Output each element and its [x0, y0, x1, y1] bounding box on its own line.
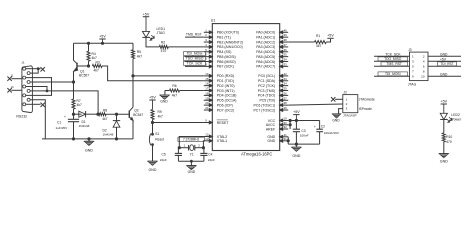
wire GND rail	[42, 138, 133, 140]
ground rail GND symbol	[84, 138, 94, 153]
svg-text:ATmega16-16PC: ATmega16-16PC	[241, 152, 272, 157]
capacitor C2 100uF	[314, 121, 340, 145]
svg-text:14: 14	[205, 72, 209, 76]
svg-text:PD6 (ICP): PD6 (ICP)	[217, 103, 233, 107]
ground S1 GND	[148, 161, 158, 172]
pin 29 PC7	[253, 106, 288, 112]
capacitor C5 22pF	[160, 148, 182, 163]
svg-text:GND: GND	[440, 52, 448, 56]
svg-text:PC0 (SCL): PC0 (SCL)	[258, 74, 275, 78]
svg-text:22: 22	[284, 72, 288, 76]
svg-text:PC3 (TMS): PC3 (TMS)	[258, 89, 276, 93]
no-connect X DB9 left stub A	[7, 73, 22, 81]
wire XTAL1 to crystal	[202, 141, 204, 148]
svg-text:34: 34	[284, 58, 288, 62]
transistor Q2 BC547	[106, 107, 143, 139]
svg-text:PD0 (RXD): PD0 (RXD)	[217, 74, 235, 78]
pin 37 PA3	[256, 43, 288, 49]
svg-text:AREF: AREF	[266, 127, 275, 131]
wire XTAL2 to crystal	[179, 137, 204, 148]
svg-text:U1: U1	[211, 19, 216, 23]
wire DB9 loopback inner	[26, 87, 48, 92]
svg-text:22pF: 22pF	[208, 158, 215, 162]
wire J2 pin1 NC	[331, 97, 343, 101]
svg-text:GND: GND	[332, 118, 340, 122]
svg-text:D1: D1	[82, 120, 86, 124]
wire DB9 pin6 up	[30, 68, 39, 73]
svg-text:GND: GND	[149, 168, 157, 172]
svg-text:4k7: 4k7	[94, 68, 99, 72]
pin 4 PB3	[204, 43, 243, 49]
svg-text:31: 31	[284, 137, 288, 141]
svg-text:GND: GND	[267, 139, 275, 143]
svg-text:GND: GND	[188, 170, 196, 174]
pin 31 GND	[267, 137, 288, 143]
connector J2 JTAG-ISP header	[343, 90, 358, 117]
pin 14 PD0	[204, 72, 235, 78]
node crystal value box	[178, 137, 204, 142]
svg-text:PA4 (ADC4): PA4 (ADC4)	[256, 50, 275, 54]
svg-text:21: 21	[205, 106, 209, 110]
wire DB9 pin9 to GND rail	[30, 100, 45, 139]
svg-text:10: 10	[11, 85, 14, 89]
svg-text:J2: J2	[343, 90, 347, 94]
svg-text:TDO_MISO: TDO_MISO	[384, 57, 402, 61]
svg-text:PA2 (ADC2): PA2 (ADC2)	[256, 40, 275, 44]
pin 13 XTAL1	[204, 137, 227, 143]
svg-text:PB4 (SS): PB4 (SS)	[217, 50, 232, 54]
svg-text:GND: GND	[160, 99, 168, 103]
wire J3 pin10 GND	[428, 72, 461, 76]
svg-text:TDI_MOSI: TDI_MOSI	[385, 72, 401, 76]
resistor R9 4k7	[151, 110, 163, 123]
svg-text:100uF/16V: 100uF/16V	[324, 131, 340, 135]
svg-text:PB2 (AIN0/INT2): PB2 (AIN0/INT2)	[217, 40, 243, 44]
wire RXD to Q1 collector	[30, 81, 73, 83]
svg-text:PC2 (TCK): PC2 (TCK)	[258, 84, 275, 88]
transistor Q1 BC557	[74, 43, 90, 82]
svg-text:TCK_SCK: TCK_SCK	[187, 62, 203, 66]
pin 27 PC5	[259, 96, 288, 102]
power +5V rail symbol	[99, 35, 106, 45]
svg-text:1N4148: 1N4148	[79, 124, 90, 128]
switch S1 Reset	[149, 123, 164, 162]
power +5V VCC	[293, 110, 300, 121]
svg-text:4k7: 4k7	[137, 54, 142, 58]
svg-text:470: 470	[161, 49, 167, 53]
svg-text:Reset: Reset	[155, 138, 164, 142]
svg-text:10: 10	[421, 74, 425, 78]
pin 1 PB0	[204, 28, 239, 34]
svg-text:23: 23	[284, 77, 288, 81]
pin 32 AREF	[266, 125, 288, 131]
resistor R7 4k7	[72, 82, 82, 119]
svg-text:32: 32	[284, 125, 288, 129]
svg-text:BC547: BC547	[133, 113, 143, 117]
svg-text:GND: GND	[440, 72, 448, 76]
pin 34 PA6	[256, 58, 288, 64]
wire DB9 pin1 NC	[26, 68, 41, 70]
svg-text:15: 15	[205, 77, 209, 81]
wire J3 pin4 +5V	[428, 57, 461, 61]
pin 21 PD7	[204, 106, 234, 112]
resistor R10 470	[442, 133, 452, 154]
svg-text:GND: GND	[440, 160, 448, 164]
connector J1 DB9 RS232 body	[16, 61, 32, 119]
svg-text:29: 29	[284, 106, 288, 110]
svg-text:33: 33	[284, 62, 288, 66]
svg-text:C4: C4	[208, 153, 212, 157]
capacitor C3 100nF	[293, 121, 309, 145]
pin 20 PD6	[204, 101, 233, 107]
svg-text:PD5 (OC1A): PD5 (OC1A)	[217, 99, 237, 103]
svg-text:BC557: BC557	[79, 74, 89, 78]
wire DB9 loopback outer	[26, 78, 52, 96]
svg-text:18: 18	[205, 91, 209, 95]
wire J3 pin2 GND	[428, 52, 461, 56]
wire J3 pin9 TDI_MOSI	[374, 72, 410, 76]
svg-text:+: +	[314, 125, 316, 129]
svg-text:PC7 (TOSC2): PC7 (TOSC2)	[253, 108, 275, 112]
svg-text:TCK_SCK: TCK_SCK	[385, 52, 401, 56]
pin 22 PC0	[258, 72, 288, 78]
svg-text:36: 36	[284, 48, 288, 52]
svg-text:PB6 (MISO): PB6 (MISO)	[217, 60, 236, 64]
wire crystal right lead	[195, 147, 205, 149]
svg-text:26: 26	[284, 91, 288, 95]
svg-text:+5V: +5V	[440, 57, 447, 61]
node D1 junction	[72, 113, 81, 115]
svg-text:470: 470	[446, 140, 452, 144]
pin 12 XTAL2	[204, 133, 227, 139]
svg-text:PA3 (ADC3): PA3 (ADC3)	[256, 45, 275, 49]
svg-text:TDI_RST: TDI_RST	[440, 62, 453, 66]
svg-text:R1: R1	[316, 34, 320, 38]
svg-text:4k7: 4k7	[158, 115, 163, 119]
svg-text:PA1 (ADC1): PA1 (ADC1)	[256, 35, 275, 39]
wire J2 pin2 to PC6	[288, 104, 343, 105]
svg-text:TMS_RST: TMS_RST	[387, 62, 402, 66]
IC U1 ATmega16 MCU body	[211, 19, 280, 157]
ground LED2 GND	[439, 154, 449, 164]
resistor R8 4k7	[98, 108, 108, 121]
pin 40 PA0	[256, 28, 288, 34]
pin 30 AVCC	[266, 121, 288, 127]
capacitor C1 1uF	[56, 115, 80, 139]
node TDI_MOSI at PB5	[184, 52, 206, 57]
svg-text:PB7 (SCK): PB7 (SCK)	[217, 65, 234, 69]
pin 33 PA7	[256, 62, 288, 68]
wire R2 to PB3	[168, 46, 204, 48]
pin 11 GND	[267, 133, 288, 139]
wire J2 pin3 to GND	[339, 109, 343, 114]
wire J3 pin1 TCK_SCK	[374, 52, 410, 56]
svg-text:+5V: +5V	[143, 12, 150, 16]
power +5V LED1	[143, 12, 150, 31]
svg-text:ISPmode: ISPmode	[359, 107, 372, 111]
wire DB9 pin5 NC	[26, 103, 41, 105]
svg-text:XTAL1: XTAL1	[217, 139, 227, 143]
svg-text:+5V: +5V	[293, 110, 300, 114]
svg-text:RESET: RESET	[217, 121, 230, 125]
svg-text:13: 13	[205, 137, 209, 141]
svg-text:R8: R8	[103, 108, 107, 112]
svg-text:GND: GND	[292, 154, 300, 158]
svg-text:PD7 (OC2): PD7 (OC2)	[217, 108, 234, 112]
pin 35 PA5	[256, 53, 288, 59]
svg-text:C2: C2	[321, 125, 325, 129]
svg-text:R3: R3	[96, 60, 100, 64]
svg-text:C1: C1	[57, 121, 61, 125]
svg-text:PD1 (TXD): PD1 (TXD)	[217, 79, 234, 83]
pin 3 PB2	[204, 38, 243, 44]
svg-text:27: 27	[284, 96, 288, 100]
svg-text:4k7: 4k7	[102, 117, 107, 121]
svg-text:PC6 (TOSC1): PC6 (TOSC1)	[253, 103, 275, 107]
svg-text:40: 40	[284, 28, 288, 32]
svg-text:39: 39	[284, 33, 288, 37]
svg-text:20: 20	[205, 101, 209, 105]
svg-text:+5V: +5V	[149, 96, 156, 100]
svg-text:19: 19	[205, 96, 209, 100]
svg-text:PA5 (ADC5): PA5 (ADC5)	[256, 55, 275, 59]
power +5V LED2	[440, 100, 447, 114]
pin 6 PB5	[204, 53, 236, 59]
svg-text:Q2: Q2	[134, 109, 139, 113]
pin 28 PC6	[253, 101, 288, 107]
LED LED1 JTAG	[142, 27, 165, 41]
svg-text:38: 38	[284, 38, 288, 42]
diode D2 1N4148	[103, 114, 121, 139]
svg-text:TMS_RST: TMS_RST	[186, 32, 202, 36]
resistor R1 4k7	[288, 34, 330, 48]
pin 24 PC2	[258, 82, 288, 88]
capacitor C4 22pF	[200, 148, 215, 163]
svg-text:35: 35	[284, 53, 288, 57]
node TCK_SCK at PB7	[184, 61, 206, 66]
svg-text:25: 25	[284, 87, 288, 91]
svg-text:R10: R10	[446, 135, 452, 139]
svg-text:PA0 (ADC0): PA0 (ADC0)	[256, 31, 275, 35]
ground R6 GND	[160, 95, 170, 103]
svg-text:TDI_MOSI: TDI_MOSI	[186, 52, 202, 56]
svg-text:1N4148: 1N4148	[103, 133, 114, 137]
svg-text:JTAG/ISP: JTAG/ISP	[343, 114, 357, 118]
wire +5V rail	[74, 42, 134, 44]
resistor R2 470	[159, 40, 168, 53]
svg-text:J3: J3	[408, 48, 412, 52]
svg-text:PA6 (ADC6): PA6 (ADC6)	[256, 60, 275, 64]
node TMS_RST at PB1	[185, 32, 204, 37]
svg-text:100nF: 100nF	[300, 134, 309, 138]
wire VCC-AVCC-AREF tie	[288, 119, 319, 129]
svg-text:LED2: LED2	[451, 113, 460, 117]
pin 23 PC1	[258, 77, 288, 83]
wire Q2 collector riser	[132, 76, 134, 107]
wire GND pins tie	[287, 137, 320, 145]
ground crystal GND	[187, 161, 197, 174]
svg-text:J1: J1	[21, 61, 25, 65]
pin 7 PB6	[204, 58, 236, 64]
wire LED1 to R2	[146, 37, 159, 47]
svg-text:4k7: 4k7	[172, 94, 177, 98]
ground VCC GND	[292, 144, 302, 158]
wire crystal gnd rail	[178, 160, 204, 162]
wire J3 pin5 TMS_RST	[374, 62, 410, 66]
svg-text:4k7: 4k7	[92, 56, 97, 60]
pin 16 PD2	[204, 82, 235, 88]
svg-text:TDO_MISO: TDO_MISO	[186, 57, 204, 61]
connector J3 JTAG header body	[408, 48, 428, 86]
no-connect X pin5	[41, 103, 45, 107]
resistor R6 4k7	[165, 84, 204, 97]
svg-text:+5V: +5V	[99, 35, 106, 39]
svg-text:4k7: 4k7	[316, 44, 321, 48]
wire TXD from DB9	[47, 91, 98, 114]
no-connect X pin1	[41, 67, 45, 71]
pin 8 PB7	[204, 62, 234, 68]
svg-text:PC1 (SDA): PC1 (SDA)	[258, 79, 275, 83]
pin 39 PA1	[256, 33, 288, 39]
svg-text:17: 17	[205, 87, 209, 91]
svg-text:GND: GND	[85, 148, 93, 152]
node TDO_MISO at PB6	[184, 57, 206, 62]
pin 36 PA4	[256, 48, 288, 54]
pin 19 PD5	[204, 96, 237, 102]
svg-text:R9: R9	[158, 110, 162, 114]
pin 25 PC3	[258, 87, 289, 93]
svg-text:1uF/25V: 1uF/25V	[56, 126, 69, 130]
wire R3 to PD1	[102, 66, 204, 81]
svg-text:PB1 (T1): PB1 (T1)	[217, 35, 231, 39]
svg-text:JTAGmode: JTAGmode	[359, 98, 375, 102]
node ISPmode label	[359, 107, 372, 111]
svg-text:RS232: RS232	[16, 115, 27, 119]
node PD0 junction	[132, 75, 204, 77]
svg-text:S1: S1	[155, 132, 159, 136]
svg-text:+5V: +5V	[440, 100, 447, 104]
ground J2 GND	[332, 114, 341, 122]
svg-text:PB5 (MOSI): PB5 (MOSI)	[217, 55, 236, 59]
resistor R5 4k7	[132, 43, 143, 76]
svg-text:Y1: Y1	[190, 152, 194, 156]
pin 10 VCC	[268, 117, 288, 123]
svg-text:7.3728MHz: 7.3728MHz	[183, 138, 200, 142]
node TXD junction	[97, 113, 99, 115]
svg-text:24: 24	[284, 82, 288, 86]
svg-text:PB3 (AIN1/OC0): PB3 (AIN1/OC0)	[217, 45, 243, 49]
wire RESET	[151, 121, 203, 123]
svg-text:28: 28	[284, 101, 288, 105]
pin 5 PB4	[204, 48, 232, 54]
wire J3 pin6 TDI_RST	[428, 62, 461, 66]
pin 15 PD1	[204, 77, 234, 83]
pin 2 PB1	[204, 33, 231, 39]
resistor R4 4k7	[87, 42, 97, 67]
pin 18 PD4	[204, 91, 237, 97]
svg-text:R2: R2	[161, 40, 165, 44]
svg-text:PD2 (INT0): PD2 (INT0)	[217, 84, 235, 88]
svg-text:PB0 (XCK/T0): PB0 (XCK/T0)	[217, 31, 239, 35]
svg-text:+5V: +5V	[327, 34, 334, 38]
svg-text:22pF: 22pF	[160, 158, 167, 162]
svg-text:R6: R6	[172, 84, 176, 88]
svg-text:C3: C3	[301, 129, 305, 133]
power +5V R1	[327, 34, 334, 39]
svg-text:C5: C5	[162, 153, 166, 157]
resistor R3 4k7	[92, 60, 102, 72]
crystal Y1	[184, 144, 201, 157]
node D2 junction	[115, 113, 117, 115]
svg-text:JTAG: JTAG	[157, 31, 166, 35]
svg-text:4k7: 4k7	[77, 103, 82, 107]
svg-text:PD4 (OC1B): PD4 (OC1B)	[217, 94, 237, 98]
node JTAGmode label	[359, 98, 375, 102]
svg-text:Power: Power	[451, 117, 461, 121]
svg-text:11: 11	[11, 73, 14, 77]
svg-text:37: 37	[284, 43, 288, 47]
svg-text:16: 16	[205, 82, 209, 86]
svg-text:PD3 (INT1): PD3 (INT1)	[217, 89, 235, 93]
pin 26 PC4	[258, 91, 289, 97]
svg-text:PC4 (TDO): PC4 (TDO)	[258, 94, 276, 98]
pin 17 PD3	[204, 87, 235, 93]
pin 9 RESET	[204, 119, 230, 125]
diode D1 1N4148	[79, 111, 99, 128]
wire crystal left lead	[178, 147, 188, 149]
svg-text:JTAG: JTAG	[408, 82, 417, 86]
LED LED2 Power	[440, 113, 462, 133]
no-connect X DB9 left stub B	[7, 85, 22, 93]
pin 38 PA2	[256, 38, 288, 44]
node Q1 collector junction	[72, 81, 74, 83]
svg-text:PA7 (ADC7): PA7 (ADC7)	[256, 65, 275, 69]
svg-text:+: +	[64, 115, 66, 119]
svg-text:PC5 (TDI): PC5 (TDI)	[259, 99, 275, 103]
power +5V R9	[149, 96, 156, 110]
wire J3 pin3 TDO_MISO	[374, 57, 410, 61]
